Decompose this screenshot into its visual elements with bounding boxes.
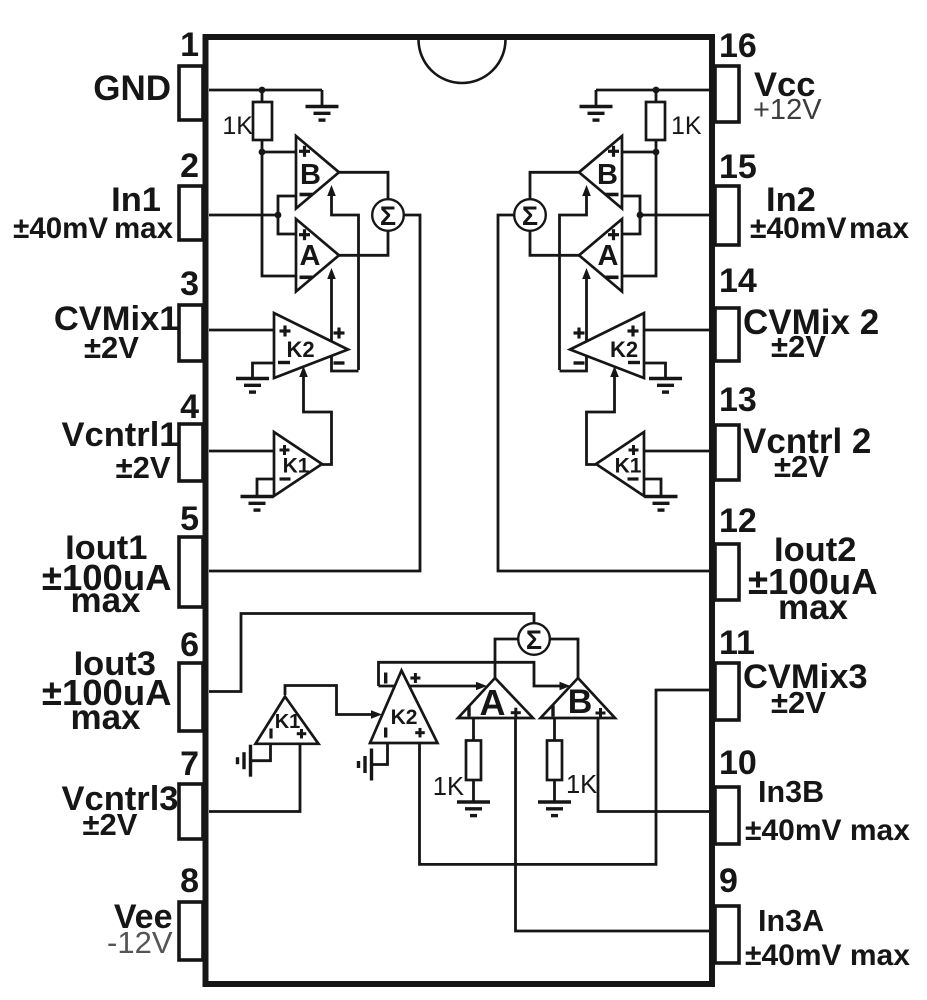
svg-text:13: 13 bbox=[719, 381, 757, 419]
svg-text:±40mV max: ±40mV max bbox=[745, 939, 910, 972]
svg-text:8: 8 bbox=[180, 862, 199, 900]
svg-text:B: B bbox=[597, 159, 618, 191]
svg-text:11: 11 bbox=[719, 624, 755, 662]
svg-text:±2V: ±2V bbox=[774, 449, 829, 484]
svg-text:Σ: Σ bbox=[380, 201, 396, 231]
svg-text:In3B: In3B bbox=[758, 775, 824, 809]
svg-text:14: 14 bbox=[719, 262, 757, 300]
svg-text:1K: 1K bbox=[566, 771, 597, 799]
svg-text:±2V: ±2V bbox=[83, 807, 138, 842]
svg-text:±2V: ±2V bbox=[116, 450, 171, 485]
svg-text:2: 2 bbox=[180, 147, 199, 185]
svg-text:±2V: ±2V bbox=[84, 330, 139, 365]
svg-text:9: 9 bbox=[719, 862, 738, 900]
svg-text:5: 5 bbox=[180, 500, 199, 538]
svg-text:+12V: +12V bbox=[753, 94, 822, 126]
svg-text:1: 1 bbox=[180, 26, 199, 64]
svg-text:1K: 1K bbox=[671, 112, 702, 140]
svg-text:K2: K2 bbox=[286, 337, 314, 362]
svg-text:max: max bbox=[70, 581, 141, 620]
svg-text:Σ: Σ bbox=[522, 201, 538, 231]
svg-text:K1: K1 bbox=[283, 455, 310, 478]
svg-text:15: 15 bbox=[719, 148, 757, 186]
svg-text:7: 7 bbox=[180, 745, 199, 783]
svg-text:3: 3 bbox=[180, 265, 199, 303]
svg-text:Vcntrl1: Vcntrl1 bbox=[62, 416, 179, 454]
svg-text:12: 12 bbox=[719, 502, 757, 540]
svg-text:GND: GND bbox=[93, 69, 171, 108]
svg-text:±40mV max: ±40mV max bbox=[750, 212, 909, 245]
svg-text:±2V: ±2V bbox=[771, 685, 826, 720]
svg-text:±40mV max: ±40mV max bbox=[13, 212, 173, 245]
svg-text:K2: K2 bbox=[391, 706, 418, 729]
svg-text:4: 4 bbox=[180, 388, 199, 426]
svg-text:1K: 1K bbox=[433, 773, 464, 801]
svg-text:±40mV max: ±40mV max bbox=[745, 814, 910, 847]
svg-text:16: 16 bbox=[719, 27, 757, 65]
svg-text:1K: 1K bbox=[222, 112, 253, 140]
svg-text:B: B bbox=[300, 159, 321, 191]
svg-text:K2: K2 bbox=[610, 337, 638, 362]
svg-text:In3A: In3A bbox=[758, 904, 824, 938]
svg-text:A: A bbox=[300, 240, 321, 272]
svg-text:10: 10 bbox=[719, 744, 757, 782]
svg-text:max: max bbox=[778, 588, 849, 627]
svg-text:-12V: -12V bbox=[107, 925, 173, 960]
svg-text:A: A bbox=[480, 682, 506, 723]
svg-text:K1: K1 bbox=[275, 711, 301, 733]
svg-text:B: B bbox=[568, 683, 593, 721]
svg-text:6: 6 bbox=[180, 626, 199, 664]
svg-text:±2V: ±2V bbox=[771, 329, 826, 364]
svg-text:K1: K1 bbox=[615, 455, 642, 478]
svg-text:max: max bbox=[70, 698, 141, 737]
svg-text:Σ: Σ bbox=[526, 625, 542, 655]
svg-text:A: A bbox=[598, 240, 619, 272]
